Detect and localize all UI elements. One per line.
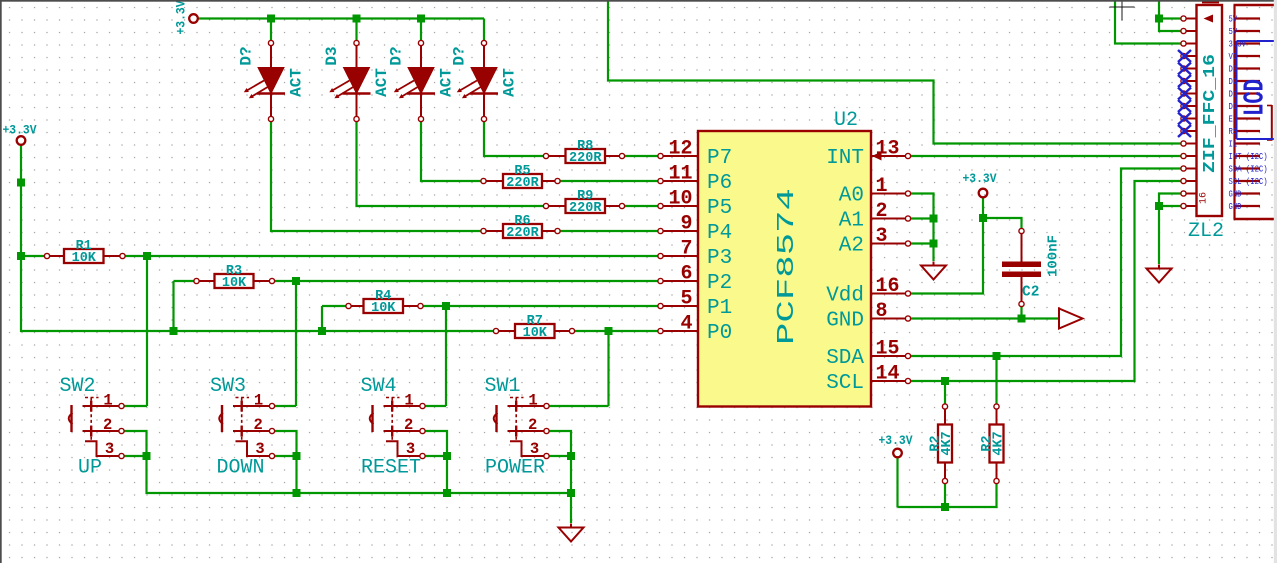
wire (146, 256, 148, 406)
pin RS (1229, 127, 1261, 137)
wire (908, 181, 1184, 381)
svg-text:ACT: ACT (438, 68, 456, 97)
pin 9 P4 (658, 213, 732, 246)
svg-text:220R: 220R (569, 201, 602, 216)
svg-text:1: 1 (876, 175, 888, 198)
svg-text:220R: 220R (569, 151, 602, 166)
power +3.3V (879, 433, 913, 457)
wire (423, 455, 448, 457)
pin 8 pad (1181, 103, 1197, 108)
wire (483, 19, 485, 44)
wire (908, 218, 1022, 294)
LED D? (238, 40, 306, 121)
capacitor C2 (1002, 228, 1061, 306)
pin 8 GND (826, 300, 910, 333)
pin 16 Vdd (826, 275, 910, 308)
pin D2 (1229, 77, 1261, 87)
svg-text:10K: 10K (523, 326, 548, 341)
junction (930, 215, 938, 223)
wire (558, 230, 662, 232)
pin V0 (1229, 52, 1261, 62)
wire (122, 431, 572, 493)
svg-text:IL: IL (1229, 140, 1238, 150)
svg-text:220R: 220R (506, 176, 539, 191)
svg-text:10K: 10K (371, 301, 396, 316)
pin 6 P2 (658, 263, 732, 296)
pin 1 pad (1181, 16, 1197, 21)
wire (898, 481, 997, 507)
svg-text:SDA: SDA (826, 347, 864, 370)
wire (995, 356, 997, 407)
op-amp U1 IC U2 PCF8574 (658, 109, 911, 407)
svg-text:U2: U2 (834, 109, 858, 132)
canvas border (0, 0, 2, 563)
pin 12 P7 (658, 138, 732, 171)
svg-text:UP: UP (78, 457, 102, 480)
wire (321, 306, 323, 331)
pin 4 pad (1181, 53, 1197, 58)
svg-text:5V: 5V (1229, 27, 1238, 37)
wire (547, 431, 572, 456)
pin 15 SDA (826, 338, 910, 371)
pin 5 pad (1181, 66, 1197, 71)
svg-text:ACT: ACT (373, 68, 391, 97)
svg-text:16: 16 (1199, 192, 1210, 204)
svg-text:16: 16 (876, 275, 900, 298)
resistor R2 (vertical) (929, 404, 956, 484)
resistor R2 (vertical) (980, 404, 1007, 484)
pin 14 pad (1181, 178, 1197, 183)
resistor R6 (481, 214, 560, 241)
wire (172, 281, 174, 331)
pin 1 A0 (839, 175, 911, 208)
svg-text:PCF8574: PCF8574 (774, 188, 801, 345)
LCD connector (partially visible) (1229, 5, 1277, 219)
wire (174, 280, 197, 282)
wire (944, 481, 946, 507)
wire (423, 431, 448, 493)
wire (572, 330, 662, 332)
wire (21, 145, 496, 332)
svg-text:D?: D? (451, 46, 469, 65)
pin 7 pad (1181, 91, 1197, 96)
junction (17, 252, 25, 260)
pin 11 pad (1181, 141, 1197, 146)
junction (605, 327, 613, 335)
wire (271, 119, 484, 231)
junction (1155, 202, 1163, 210)
pin 2 pad (1181, 28, 1197, 33)
junction (267, 15, 275, 23)
cut-off symbol at top edge (1202, 1, 1219, 4)
pin 3 pad (1181, 41, 1197, 46)
junction (293, 452, 301, 460)
pin 5V (1229, 15, 1261, 25)
wire (622, 155, 662, 157)
svg-text:2: 2 (404, 416, 413, 434)
svg-text:14: 14 (876, 363, 900, 386)
svg-text:GND: GND (1229, 190, 1242, 200)
wire (570, 456, 572, 523)
resistor R8 (543, 139, 624, 166)
switch SW3 (DOWN) (210, 375, 275, 480)
junction (353, 15, 361, 23)
ground (1147, 265, 1172, 283)
pin 15 pad (1181, 191, 1197, 196)
pin 3 A2 (839, 225, 911, 258)
junction (442, 302, 450, 310)
wire (608, 0, 1184, 144)
junction (293, 489, 301, 497)
pin GND (1229, 202, 1261, 212)
wire (908, 217, 934, 219)
svg-text:ACT: ACT (501, 68, 519, 97)
pin 7 P3 (658, 238, 732, 271)
svg-text:D?: D? (388, 46, 406, 65)
svg-text:2: 2 (876, 200, 888, 223)
pin 1 marker (1204, 15, 1214, 23)
svg-text:10: 10 (668, 188, 692, 211)
junction (993, 352, 1001, 360)
junction (979, 214, 987, 222)
resistor R3 (194, 264, 275, 291)
svg-text:SW2: SW2 (59, 375, 95, 398)
wire (908, 169, 1184, 357)
svg-text:A0: A0 (839, 185, 864, 208)
svg-text:SW4: SW4 (360, 375, 396, 398)
svg-text:3: 3 (255, 440, 264, 458)
svg-text:E: E (1229, 115, 1233, 125)
junction (1155, 15, 1163, 23)
wire (908, 242, 934, 244)
wire (198, 17, 485, 19)
wire (123, 255, 662, 257)
INT edge marker (872, 152, 882, 161)
pin 13 INT (826, 138, 910, 171)
pin SDA (I2C) (1229, 165, 1268, 175)
wire (421, 305, 662, 307)
svg-text:Vdd: Vdd (826, 285, 864, 308)
connector ZL2 ZIF_FFC_16 (1181, 5, 1224, 243)
svg-text:P5: P5 (707, 197, 732, 220)
svg-text:15: 15 (876, 338, 900, 361)
junction (318, 327, 326, 335)
svg-text:SW3: SW3 (210, 375, 246, 398)
pin D1 (1229, 90, 1261, 100)
resistor R7 (493, 314, 574, 341)
junction (1018, 315, 1026, 323)
resistor R9 (543, 189, 624, 216)
svg-text:P0: P0 (707, 322, 732, 345)
wire (122, 405, 148, 407)
svg-text:1: 1 (528, 392, 537, 410)
svg-text:4: 4 (680, 313, 692, 336)
svg-text:P2: P2 (707, 272, 732, 295)
wire (272, 280, 662, 282)
wire (484, 119, 546, 156)
wire (355, 19, 357, 44)
svg-text:2: 2 (103, 416, 112, 434)
pin 6 pad (1181, 78, 1197, 83)
svg-text:C2: C2 (1022, 285, 1039, 301)
ground arrow GND (1059, 309, 1083, 329)
pin 2 A1 (839, 200, 911, 233)
svg-text:10K: 10K (72, 251, 97, 266)
svg-text:7: 7 (680, 238, 692, 261)
wire (272, 455, 297, 457)
wire (295, 281, 297, 406)
wire (908, 194, 934, 262)
pin SCL (I2C) (1229, 177, 1268, 187)
resistor R5 (481, 164, 560, 191)
svg-text:+3.3V: +3.3V (174, 0, 189, 34)
svg-text:SDA (I2C): SDA (I2C) (1229, 165, 1268, 175)
pin GND (1229, 190, 1261, 200)
svg-text:P6: P6 (707, 172, 732, 195)
svg-text:10K: 10K (222, 276, 247, 291)
wire (607, 331, 609, 406)
pin 11 P6 (658, 163, 732, 196)
resistor R4 (346, 289, 423, 316)
svg-text:220R: 220R (506, 226, 539, 241)
wire (1115, 0, 1184, 44)
svg-text:ZIF_FFC_16: ZIF_FFC_16 (1201, 54, 1220, 173)
junction (143, 452, 151, 460)
wire (420, 19, 422, 44)
pin D0 (1229, 102, 1261, 112)
wire (944, 381, 946, 407)
sheet LCD (1237, 41, 1277, 139)
pin 13 pad (1181, 166, 1197, 171)
wire (421, 119, 484, 181)
svg-text:3: 3 (406, 440, 415, 458)
sheet pin at right edge (1271, 105, 1273, 141)
resistor R1 (44, 239, 125, 266)
wire (122, 455, 147, 457)
pin 14 SCL (826, 363, 910, 396)
power +3.3V (3, 123, 37, 145)
svg-text:GND: GND (1229, 202, 1242, 212)
pin 9 pad (1181, 116, 1197, 121)
wire (1159, 0, 1184, 31)
junction (941, 377, 949, 385)
wire (547, 455, 572, 457)
wire (423, 405, 447, 407)
junction (443, 452, 451, 460)
LED D? (388, 40, 456, 121)
wire (1020, 304, 1022, 319)
ground (921, 262, 946, 280)
junction (170, 327, 178, 335)
svg-text:A1: A1 (839, 210, 864, 233)
wire (272, 405, 296, 407)
wire (558, 180, 662, 182)
wire (357, 119, 547, 206)
svg-text:P4: P4 (707, 222, 732, 245)
svg-text:12: 12 (668, 138, 692, 161)
pin 5 P1 (658, 288, 732, 321)
svg-text:9: 9 (680, 213, 692, 236)
svg-text:RESET: RESET (361, 457, 421, 480)
wire (1159, 17, 1184, 19)
pin 10 P5 (658, 188, 732, 221)
svg-text:SCL: SCL (826, 372, 864, 395)
junction (143, 252, 151, 260)
power +3.3V (963, 171, 997, 197)
svg-text:5: 5 (680, 288, 692, 311)
pin 10 pad (1181, 128, 1197, 133)
svg-text:SCL (I2C): SCL (I2C) (1229, 177, 1268, 187)
svg-text:POWER: POWER (485, 457, 545, 480)
svg-text:2: 2 (254, 416, 263, 434)
svg-text:11: 11 (668, 163, 692, 186)
svg-text:4K7: 4K7 (940, 431, 955, 455)
wire (445, 306, 447, 406)
switch SW1 (POWER) (484, 375, 549, 480)
junction (292, 277, 300, 285)
wire (1159, 194, 1184, 265)
svg-text:P3: P3 (707, 247, 732, 270)
svg-text:ZL2: ZL2 (1188, 220, 1224, 243)
pin 4 P0 (658, 313, 732, 346)
svg-text:INT: INT (826, 147, 864, 170)
cursor crosshair (1110, 0, 1135, 21)
junction (930, 240, 938, 248)
pin 12 pad (1181, 153, 1197, 158)
no-connect marks (1178, 50, 1191, 137)
svg-text:100nF: 100nF (1045, 235, 1061, 277)
wire (21, 255, 47, 257)
wire (896, 457, 898, 507)
svg-text:GND: GND (826, 310, 864, 333)
svg-text:8: 8 (876, 300, 888, 323)
svg-text:3: 3 (530, 440, 539, 458)
svg-text:3: 3 (876, 225, 888, 248)
svg-text:2: 2 (528, 416, 537, 434)
svg-text:LCD: LCD (1239, 79, 1272, 116)
switch SW4 (RESET) (360, 375, 425, 480)
svg-text:A2: A2 (839, 235, 864, 258)
svg-text:INT (I2C): INT (I2C) (1229, 152, 1268, 162)
svg-text:5V: 5V (1229, 15, 1238, 25)
wire (547, 405, 609, 407)
wire (908, 155, 1184, 157)
svg-text:+3.3V: +3.3V (3, 123, 37, 138)
pin E (1229, 115, 1261, 125)
svg-text:P7: P7 (707, 147, 732, 170)
wire (622, 205, 662, 207)
ground (559, 524, 584, 542)
svg-text:+3.3V: +3.3V (879, 433, 913, 448)
wire (270, 19, 272, 44)
svg-text:+3.3V: +3.3V (963, 171, 997, 186)
power +3.3V (174, 0, 198, 34)
svg-text:1: 1 (404, 392, 413, 410)
svg-text:ACT: ACT (288, 68, 306, 97)
junction (17, 179, 25, 187)
junction (567, 489, 575, 497)
pin 3.3V (1229, 40, 1261, 50)
svg-text:P1: P1 (707, 297, 732, 320)
pin D3 (1229, 65, 1261, 75)
svg-text:SW1: SW1 (484, 375, 520, 398)
svg-text:6: 6 (680, 263, 692, 286)
junction (567, 452, 575, 460)
wire (322, 305, 349, 307)
wire (982, 197, 984, 218)
junction (417, 15, 425, 23)
junction (941, 503, 949, 511)
LED D? (451, 40, 519, 121)
junction (443, 489, 451, 497)
svg-text:3: 3 (105, 440, 114, 458)
LED D3 (323, 40, 391, 121)
switch SW2 (UP) (59, 375, 124, 480)
wire (272, 431, 297, 493)
pin 5V (1229, 27, 1261, 37)
svg-text:D?: D? (238, 46, 256, 65)
wire (1159, 205, 1184, 207)
svg-text:1: 1 (103, 392, 112, 410)
pin INT (I2C) (1229, 152, 1268, 162)
scrollbar strip (1274, 0, 1277, 563)
wire (908, 317, 1059, 319)
svg-text:4K7: 4K7 (992, 431, 1007, 455)
svg-text:1: 1 (254, 392, 263, 410)
svg-text:DOWN: DOWN (216, 457, 264, 480)
pin IL (1229, 140, 1261, 150)
pin 16 pad (1181, 203, 1197, 208)
svg-text:D3: D3 (323, 46, 341, 65)
